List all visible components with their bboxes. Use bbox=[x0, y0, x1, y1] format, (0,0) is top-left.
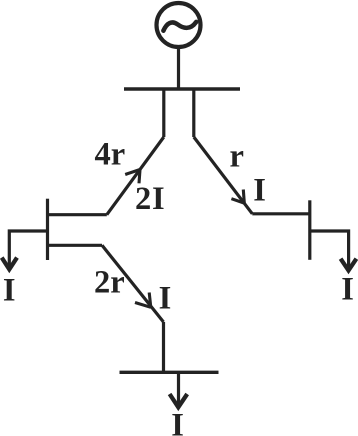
arrowhead bottom load I bbox=[170, 394, 188, 407]
AC source G1 circle bbox=[157, 3, 201, 47]
wire line 4r diagonal bbox=[107, 137, 164, 215]
svg-text:I: I bbox=[341, 272, 354, 308]
wire line 2r diagonal bbox=[102, 245, 164, 322]
left bus bar B2 bbox=[46, 199, 49, 260]
svg-text:I: I bbox=[3, 272, 16, 308]
svg-text:4r: 4r bbox=[95, 136, 126, 172]
right bus bar B3 bbox=[308, 200, 311, 259]
wire r to right bus bbox=[252, 212, 309, 215]
wire top bus left drop bbox=[162, 88, 165, 138]
wire right load bbox=[310, 231, 349, 268]
bottom bus bar B4 bbox=[120, 371, 219, 374]
svg-text:I: I bbox=[253, 172, 266, 208]
svg-text:2I: 2I bbox=[135, 181, 166, 217]
wire left bus to 2r bbox=[48, 244, 103, 247]
arrow current I on 2r line bbox=[135, 293, 151, 308]
wire top bus right drop bbox=[192, 88, 195, 138]
wire 4r to left bus bbox=[48, 213, 107, 216]
wire line r diagonal bbox=[194, 137, 253, 214]
AC source sine symbol bbox=[163, 22, 196, 31]
arrowhead left load I bbox=[2, 258, 17, 270]
svg-text:r: r bbox=[230, 138, 244, 174]
svg-text:I: I bbox=[171, 407, 184, 436]
wire source to top bus bbox=[177, 47, 180, 89]
arrow current 2I on 4r line bbox=[125, 170, 140, 184]
top bus bar bbox=[124, 87, 240, 90]
arrowhead right load I bbox=[341, 259, 357, 271]
wire 2r to bottom bus bbox=[162, 322, 165, 372]
arrow current I on r line bbox=[231, 190, 244, 204]
svg-text:I: I bbox=[159, 280, 172, 316]
wire bottom load bbox=[177, 372, 180, 405]
wire left load bbox=[9, 231, 47, 267]
svg-text:2r: 2r bbox=[94, 264, 125, 300]
